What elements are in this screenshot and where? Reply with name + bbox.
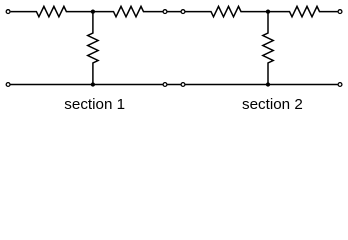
svg-text:section 2: section 2 (242, 96, 303, 113)
svg-text:section 1: section 1 (64, 96, 125, 113)
